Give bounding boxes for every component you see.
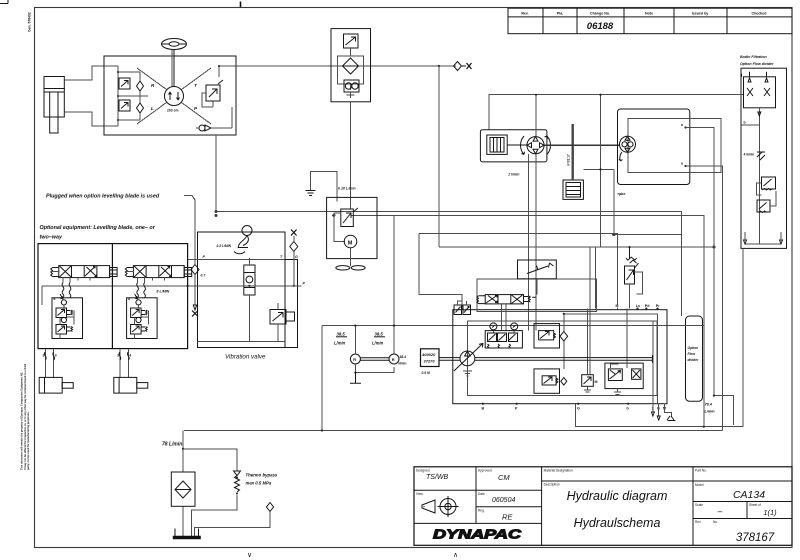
svg-text:Change No.: Change No. — [590, 12, 610, 16]
svg-text:4: 4 — [55, 354, 57, 358]
svg-text:Hydraulschema: Hydraulschema — [574, 516, 661, 530]
svg-text:78.4: 78.4 — [705, 403, 713, 407]
svg-text:Rev.: Rev. — [521, 12, 528, 16]
svg-text:P: P — [194, 106, 198, 111]
svg-text:L/min: L/min — [705, 410, 716, 414]
svg-text:4 l/min: 4 l/min — [744, 153, 755, 157]
svg-text:Issued by: Issued by — [692, 12, 709, 16]
svg-text:L/min: L/min — [372, 341, 384, 346]
svg-text:∧: ∧ — [453, 552, 458, 559]
svg-text:G: G — [577, 407, 580, 411]
svg-text:Material Designation: Material Designation — [544, 469, 573, 473]
svg-text:Option Flow divider: Option Flow divider — [740, 62, 774, 66]
svg-text:P: P — [515, 407, 518, 411]
svg-text:0.3 L/MIN: 0.3 L/MIN — [217, 244, 232, 248]
svg-text:Vibration valve: Vibration valve — [225, 354, 266, 361]
svg-text:rpke: rpke — [618, 192, 626, 196]
svg-text:–: – — [717, 507, 723, 516]
svg-text:Thermo bypass: Thermo bypass — [246, 473, 278, 478]
svg-text:78 L/min: 78 L/min — [162, 442, 182, 448]
svg-text:Gen. 578492: Gen. 578492 — [28, 12, 32, 32]
svg-text:max 0.5 MPa: max 0.5 MPa — [246, 481, 272, 486]
svg-text:0.5 M: 0.5 M — [422, 371, 430, 375]
svg-text:Plugged when option levelli: Plugged when option levelling blade is u… — [46, 194, 160, 200]
svg-text:Pla.: Pla. — [557, 12, 563, 16]
svg-text:060504: 060504 — [492, 497, 515, 504]
svg-text:3: 3 — [43, 354, 45, 358]
svg-text:P: P — [203, 255, 206, 259]
svg-text:L/min: L/min — [334, 341, 346, 346]
svg-text:Note: Note — [645, 12, 653, 16]
svg-text:R: R — [392, 357, 395, 362]
svg-text:TS/WB: TS/WB — [426, 474, 448, 481]
svg-text:Hydraulic diagram: Hydraulic diagram — [567, 489, 668, 503]
svg-text:Ls: Ls — [636, 304, 640, 308]
svg-text:CM: CM — [498, 473, 510, 482]
svg-text:Reg.: Reg. — [478, 508, 485, 512]
svg-text:203 cm: 203 cm — [167, 109, 179, 113]
svg-text:Sheet of: Sheet of — [749, 503, 761, 507]
svg-text:38.5: 38.5 — [375, 332, 384, 337]
svg-text:two–way: two–way — [40, 235, 63, 241]
svg-text:G: G — [295, 255, 298, 259]
svg-text:n=32.17: n=32.17 — [567, 154, 571, 166]
svg-text:Rev.: Rev. — [695, 520, 701, 524]
svg-text:Date: Date — [478, 492, 485, 496]
svg-text:R: R — [353, 357, 356, 362]
svg-text:T: T — [280, 255, 283, 259]
svg-text:b: b — [744, 121, 746, 125]
svg-text:M: M — [616, 304, 619, 308]
svg-text:∨: ∨ — [247, 552, 252, 559]
svg-text:Flow: Flow — [688, 352, 696, 356]
svg-text:400020: 400020 — [421, 352, 436, 357]
svg-text:Approved: Approved — [478, 469, 492, 473]
svg-text:T: T — [194, 83, 198, 88]
svg-text:DYNAPAC: DYNAPAC — [433, 527, 522, 542]
svg-text:06188: 06188 — [587, 21, 614, 32]
svg-text:CA134: CA134 — [733, 489, 765, 501]
svg-text:No.: No. — [713, 520, 718, 524]
svg-text:37270: 37270 — [424, 359, 436, 364]
svg-text:1 l/min: 1 l/min — [508, 173, 520, 177]
svg-text:Description: Description — [544, 483, 560, 487]
svg-text:Pr: Pr — [656, 304, 660, 308]
svg-text:8 L/MIN: 8 L/MIN — [157, 290, 170, 294]
svg-text:38.4: 38.4 — [400, 355, 407, 359]
svg-text:divider: divider — [688, 358, 700, 362]
svg-text:RE: RE — [502, 513, 513, 522]
svg-text:L: L — [151, 106, 154, 111]
svg-text:0.10 L/min: 0.10 L/min — [338, 187, 356, 191]
svg-text:b: b — [627, 407, 630, 411]
svg-text:a: a — [681, 162, 683, 166]
svg-text:party, nor be used for manufac: party, nor be used for manufacturing pur… — [26, 411, 30, 470]
svg-text:0.7: 0.7 — [201, 274, 207, 278]
svg-text:Model: Model — [695, 483, 704, 487]
svg-text:38.5: 38.5 — [337, 332, 346, 337]
svg-text:Part No.: Part No. — [695, 469, 707, 473]
svg-text:Bodkr Filtration: Bodkr Filtration — [740, 55, 768, 59]
svg-text:Pd: Pd — [645, 304, 650, 308]
svg-text:Option: Option — [688, 346, 699, 350]
svg-text:378167: 378167 — [736, 532, 775, 544]
svg-text:1(1): 1(1) — [763, 508, 777, 517]
svg-text:B: B — [482, 407, 485, 411]
svg-text:Designed: Designed — [416, 469, 430, 473]
svg-text:Scale: Scale — [695, 503, 703, 507]
svg-text:Optional equipment: Levellin: Optional equipment: Levelling blade, one… — [40, 225, 156, 231]
svg-text:M: M — [595, 380, 598, 384]
svg-text:l/min: l/min — [399, 362, 407, 366]
svg-text:a: a — [681, 123, 683, 127]
svg-text:Checked: Checked — [752, 12, 767, 16]
svg-text:M: M — [348, 241, 353, 247]
svg-text:P: P — [303, 282, 306, 286]
svg-text:View: View — [416, 492, 424, 496]
svg-text:R: R — [151, 83, 155, 88]
